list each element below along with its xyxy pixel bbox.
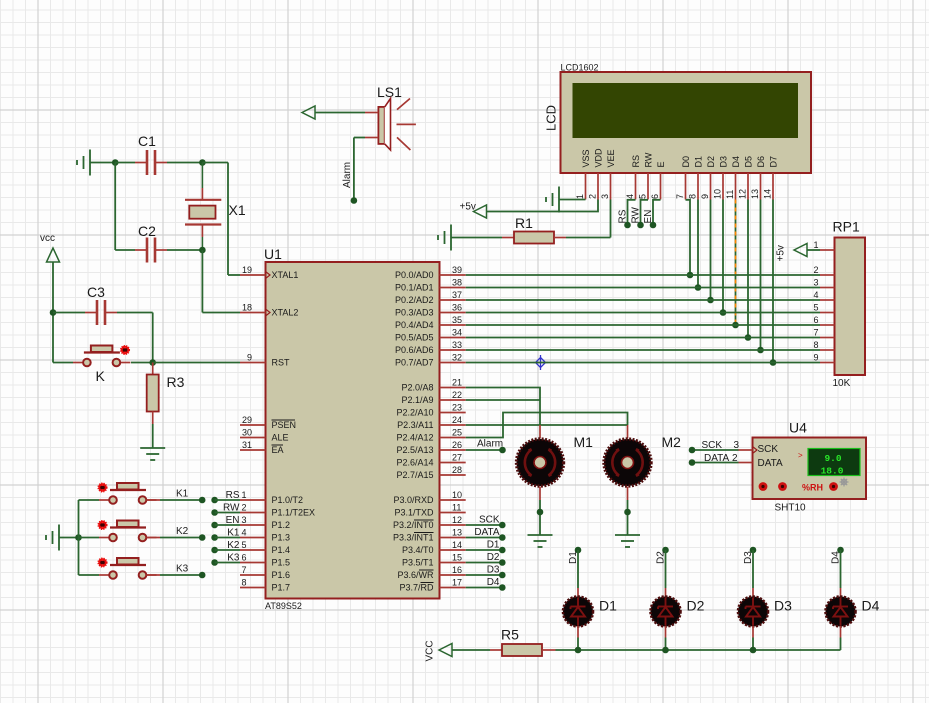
D3 bottom lead bbox=[752, 626, 754, 638]
wire LCD RW bbox=[641, 200, 649, 225]
svg-text:EA: EA bbox=[272, 445, 284, 455]
K2 right lead bbox=[147, 537, 161, 539]
svg-text:12: 12 bbox=[738, 189, 748, 199]
node net RW (LCD) bbox=[637, 222, 644, 229]
svg-text:24: 24 bbox=[452, 415, 462, 425]
svg-text:P1.7: P1.7 bbox=[272, 583, 291, 593]
node net EN (LCD) bbox=[650, 222, 657, 229]
svg-text:P2.5/A13: P2.5/A13 bbox=[396, 445, 433, 455]
node RST bbox=[149, 359, 156, 366]
svg-text:19: 19 bbox=[242, 265, 252, 275]
svg-text:33: 33 bbox=[452, 340, 462, 350]
LCD pin stubs bbox=[586, 173, 774, 200]
ground below R3 bbox=[140, 448, 165, 460]
wire net SCK (U1) bbox=[466, 524, 503, 526]
svg-text:6: 6 bbox=[242, 553, 247, 563]
svg-text:7: 7 bbox=[813, 328, 818, 338]
K1 right lead bbox=[147, 499, 161, 501]
wire net EN to U1 bbox=[215, 524, 240, 526]
ground below LCD pin1 bbox=[546, 187, 559, 213]
wire gnd to C1 node bbox=[90, 162, 115, 164]
svg-text:EN: EN bbox=[226, 515, 240, 526]
svg-text:13: 13 bbox=[452, 528, 462, 538]
svg-text:29: 29 bbox=[242, 415, 252, 425]
svg-text:P0.1/AD1: P0.1/AD1 bbox=[395, 283, 434, 293]
svg-text:P3.2/INT0: P3.2/INT0 bbox=[393, 520, 434, 530]
power VCC (reset circuit) bbox=[47, 248, 60, 262]
svg-text:D2: D2 bbox=[706, 156, 716, 168]
wire to pin18 bbox=[202, 312, 240, 314]
R1 right lead bbox=[554, 237, 566, 239]
svg-text:8: 8 bbox=[813, 340, 818, 350]
svg-text:2: 2 bbox=[242, 503, 247, 513]
wire VSS to ground bbox=[559, 199, 586, 201]
wire to pin19 bbox=[228, 274, 240, 276]
node D1 junction bbox=[695, 284, 702, 291]
svg-text:D0: D0 bbox=[681, 156, 691, 168]
node net K3 at P1 bbox=[211, 559, 218, 566]
node rail D2 bbox=[662, 647, 669, 654]
node M2 gnd wire bbox=[624, 509, 631, 516]
svg-text:D5: D5 bbox=[744, 156, 754, 168]
svg-text:18: 18 bbox=[242, 303, 252, 313]
svg-text:SCK: SCK bbox=[758, 444, 779, 455]
wire LCD D0 bbox=[686, 200, 691, 275]
svg-text:ALE: ALE bbox=[272, 433, 289, 443]
wire DATA bbox=[692, 462, 739, 464]
R1 left lead bbox=[502, 237, 514, 239]
wire net D2 (U1) bbox=[466, 562, 503, 564]
power terminal at LS1 bbox=[302, 106, 315, 119]
svg-text:P2.7/A15: P2.7/A15 bbox=[396, 470, 433, 480]
svg-text:30: 30 bbox=[242, 428, 252, 438]
svg-text:R5: R5 bbox=[501, 627, 519, 643]
svg-text:R3: R3 bbox=[167, 374, 185, 390]
svg-text:5: 5 bbox=[813, 303, 818, 313]
svg-text:5: 5 bbox=[242, 540, 247, 550]
svg-text:39: 39 bbox=[452, 265, 462, 275]
svg-text:VSS: VSS bbox=[581, 149, 591, 167]
wire net K2 to U1 bbox=[215, 549, 240, 551]
svg-text:LS1: LS1 bbox=[377, 84, 402, 100]
svg-text:11: 11 bbox=[452, 503, 461, 513]
svg-text:P0.2/AD2: P0.2/AD2 bbox=[395, 295, 434, 305]
K3 right lead bbox=[147, 574, 161, 576]
wire C2 left bbox=[115, 249, 135, 251]
svg-text:P2.3/A11: P2.3/A11 bbox=[397, 420, 433, 430]
R5 left lead bbox=[490, 649, 502, 651]
svg-text:AT89S52: AT89S52 bbox=[265, 601, 302, 611]
svg-text:K2: K2 bbox=[227, 540, 240, 551]
svg-text:P2.1/A9: P2.1/A9 bbox=[401, 395, 433, 405]
svg-text:DATA: DATA bbox=[758, 458, 784, 469]
wire VCC to K bbox=[53, 362, 73, 364]
svg-text:7: 7 bbox=[675, 194, 685, 199]
node net DATA (U4) bbox=[689, 459, 696, 466]
R3 bottom lead bbox=[152, 412, 154, 425]
wire LCD RS bbox=[628, 200, 636, 225]
svg-text:9: 9 bbox=[813, 353, 818, 363]
svg-text:36: 36 bbox=[452, 303, 462, 313]
wire P0.3 to RP1 bbox=[466, 312, 820, 314]
svg-text:E: E bbox=[656, 161, 666, 167]
wire K1 to net label bbox=[160, 499, 202, 501]
svg-text:VDD: VDD bbox=[594, 148, 604, 168]
svg-text:D7: D7 bbox=[769, 156, 779, 168]
svg-text:2: 2 bbox=[588, 194, 598, 199]
svg-text:18.0: 18.0 bbox=[821, 466, 844, 477]
svg-text:8: 8 bbox=[242, 578, 247, 588]
svg-text:SCK: SCK bbox=[479, 515, 500, 526]
svg-text:R1: R1 bbox=[515, 215, 533, 231]
svg-text:9: 9 bbox=[700, 194, 710, 199]
svg-text:U4: U4 bbox=[789, 420, 807, 436]
node net K1 bbox=[199, 497, 206, 504]
svg-text:D3: D3 bbox=[719, 156, 729, 168]
svg-text:3: 3 bbox=[734, 440, 740, 451]
svg-text:DATA: DATA bbox=[474, 527, 500, 538]
wire VCC to R5 bbox=[452, 649, 490, 651]
svg-text:K1: K1 bbox=[176, 489, 189, 500]
svg-text:SHT10: SHT10 bbox=[775, 503, 807, 514]
U4 SCK stub bbox=[739, 449, 753, 451]
svg-text:C2: C2 bbox=[138, 223, 156, 239]
node net SCK (U1) bbox=[499, 522, 506, 529]
push button K bbox=[73, 346, 130, 367]
svg-text:K3: K3 bbox=[227, 553, 240, 564]
svg-text:17: 17 bbox=[452, 578, 462, 588]
svg-text:15: 15 bbox=[452, 553, 462, 563]
svg-text:P0.4/AD4: P0.4/AD4 bbox=[395, 320, 434, 330]
node net K1 at P1 bbox=[211, 534, 218, 541]
wire D3 to rail bbox=[752, 638, 754, 651]
wire P0.5 to RP1 bbox=[466, 337, 820, 339]
wire K3 to net label bbox=[160, 574, 202, 576]
node buttons common bbox=[75, 534, 82, 541]
wire M1 to ground bbox=[539, 500, 541, 535]
wire LCD D1 bbox=[697, 200, 699, 288]
wire RST to pin9 bbox=[153, 362, 240, 364]
svg-text:%RH: %RH bbox=[802, 483, 823, 493]
wire to K1 left bbox=[79, 499, 100, 501]
svg-text:SCK: SCK bbox=[702, 440, 723, 451]
wire C2 right bbox=[167, 249, 202, 251]
M1 bottom lead bbox=[539, 487, 541, 501]
wire net K1 to U1 bbox=[215, 537, 240, 539]
node net RS (LCD) bbox=[624, 222, 631, 229]
svg-text:P0.6/AD6: P0.6/AD6 bbox=[395, 345, 434, 355]
wire VEE vertical bbox=[610, 200, 612, 238]
power +5V (RP1) bbox=[794, 244, 807, 257]
wire LCD D2 bbox=[710, 200, 712, 301]
wire net RS to U1 bbox=[215, 499, 240, 501]
ground left of C1 bbox=[77, 150, 90, 176]
svg-text:P2.2/A10: P2.2/A10 bbox=[396, 408, 433, 418]
node net D4 (U1) bbox=[499, 584, 506, 591]
wire to K3 left bbox=[79, 574, 100, 576]
wire +5V to RP1 pin1 bbox=[807, 249, 820, 251]
svg-text:P3.3/INT1: P3.3/INT1 bbox=[393, 533, 434, 543]
wire D4 vertical bbox=[840, 550, 842, 588]
push button K3 bbox=[98, 558, 156, 579]
svg-text:K3: K3 bbox=[176, 564, 189, 575]
node net D2 (U1) bbox=[499, 559, 506, 566]
svg-text:26: 26 bbox=[452, 440, 462, 450]
node net K3 bbox=[199, 572, 206, 579]
svg-text:22: 22 bbox=[452, 390, 462, 400]
wire P0.2 to RP1 bbox=[466, 299, 820, 301]
microcontroller U1 (AT89S52) bbox=[240, 246, 466, 611]
node C3 tap bbox=[50, 309, 57, 316]
svg-text:3: 3 bbox=[242, 515, 247, 525]
wire LCD EN bbox=[653, 200, 661, 225]
node C1-left junction bbox=[112, 159, 119, 166]
node D3 junction bbox=[720, 309, 727, 316]
svg-text:VCC: VCC bbox=[425, 640, 436, 661]
svg-text:21: 21 bbox=[452, 378, 462, 388]
wire C3 down to RST bbox=[152, 313, 154, 363]
svg-text:4: 4 bbox=[625, 194, 635, 199]
svg-text:25: 25 bbox=[452, 428, 462, 438]
wire P0.7 to RP1 bbox=[466, 362, 820, 364]
svg-text:37: 37 bbox=[452, 290, 462, 300]
wire D4 to rail bbox=[840, 638, 842, 651]
wire P0.0 to RP1 bbox=[466, 274, 820, 276]
svg-text:P0.3/AD3: P0.3/AD3 bbox=[395, 308, 434, 318]
svg-text:9.0: 9.0 bbox=[824, 453, 841, 464]
svg-text:RW: RW bbox=[631, 206, 642, 223]
U1 left pin stubs bbox=[240, 275, 266, 588]
svg-text:D1: D1 bbox=[599, 598, 617, 614]
node M1 gnd wire bbox=[537, 509, 544, 516]
svg-text:RW: RW bbox=[644, 152, 654, 167]
wire net D3 (U1) bbox=[466, 574, 503, 576]
svg-text:14: 14 bbox=[763, 189, 773, 199]
svg-text:32: 32 bbox=[452, 353, 462, 363]
svg-text:+5v: +5v bbox=[776, 245, 787, 261]
wire D3 vertical bbox=[752, 550, 754, 588]
wire R1 to VEE bbox=[566, 237, 611, 239]
svg-text:D1: D1 bbox=[694, 156, 704, 168]
wire P2.5 Alarm bbox=[466, 449, 503, 451]
wire net D4 (U1) bbox=[466, 587, 503, 589]
wire R3 to ground bbox=[152, 424, 154, 448]
svg-text:RW: RW bbox=[223, 503, 240, 514]
D4 top lead bbox=[840, 588, 842, 597]
wire net D1 (U1) bbox=[466, 549, 503, 551]
wire LCD D5 bbox=[747, 200, 749, 338]
wire LS1- bbox=[354, 137, 365, 139]
wire power to LS1+ bbox=[315, 112, 365, 114]
push button K1 bbox=[98, 483, 156, 504]
M2 bottom lead bbox=[627, 487, 629, 501]
wire K to RST node bbox=[131, 362, 153, 364]
svg-text:3: 3 bbox=[813, 278, 818, 288]
node net K2 bbox=[199, 534, 206, 541]
svg-text:M1: M1 bbox=[574, 434, 594, 450]
D3 top lead bbox=[752, 588, 754, 597]
svg-text:vcc: vcc bbox=[40, 233, 55, 244]
node D7 junction bbox=[770, 359, 777, 366]
svg-text:EN: EN bbox=[643, 210, 654, 224]
wire buttons common vertical bbox=[78, 500, 80, 575]
svg-text:D2: D2 bbox=[487, 552, 500, 563]
U1 right pin stubs bbox=[440, 275, 466, 588]
wire net DATA (U1) bbox=[466, 537, 503, 539]
wire LCD D6 bbox=[760, 200, 762, 351]
D1 bottom lead bbox=[577, 626, 579, 638]
wire P2.1 to M1 bbox=[466, 399, 540, 401]
svg-text:VEE: VEE bbox=[606, 149, 616, 167]
node net K2 at P1 bbox=[211, 547, 218, 554]
svg-text:D4: D4 bbox=[487, 577, 500, 588]
node net D1 (top) bbox=[575, 547, 582, 554]
svg-text:1: 1 bbox=[575, 194, 585, 199]
node D6 junction bbox=[757, 347, 764, 354]
wire P2.3 to M2 bbox=[466, 424, 628, 426]
motor M2 bbox=[604, 439, 651, 486]
M2 top lead bbox=[627, 425, 629, 439]
svg-text:6: 6 bbox=[813, 315, 818, 325]
wire VCC down bbox=[52, 262, 54, 363]
svg-text:2: 2 bbox=[813, 265, 818, 275]
node net D2 (top) bbox=[662, 547, 669, 554]
node net SCK (U4) bbox=[689, 447, 696, 454]
svg-text:P1.3: P1.3 bbox=[272, 533, 291, 543]
node net D4 (top) bbox=[837, 547, 844, 554]
node XTAL1 net bbox=[199, 159, 206, 166]
motor M1 bbox=[517, 439, 564, 486]
LED D2 bbox=[651, 597, 681, 627]
svg-text:P3.4/T0: P3.4/T0 bbox=[402, 545, 434, 555]
wire to K2 left bbox=[79, 537, 100, 539]
svg-text:RP1: RP1 bbox=[833, 219, 860, 235]
svg-text:10: 10 bbox=[713, 189, 723, 199]
node net D3 (U1) bbox=[499, 572, 506, 579]
svg-text:31: 31 bbox=[242, 440, 252, 450]
svg-text:1: 1 bbox=[813, 240, 818, 250]
node Alarm (speaker) bbox=[351, 197, 358, 204]
svg-text:K2: K2 bbox=[176, 526, 189, 537]
svg-text:3: 3 bbox=[600, 194, 610, 199]
wire C1 left bbox=[115, 162, 135, 164]
svg-text:C3: C3 bbox=[87, 284, 105, 300]
svg-text:Alarm: Alarm bbox=[342, 162, 353, 188]
node Alarm (P2.5) bbox=[499, 447, 506, 454]
svg-text:RST: RST bbox=[272, 358, 291, 368]
wire SCK bbox=[692, 449, 739, 451]
R3 top lead bbox=[152, 363, 154, 375]
wire C1-left down to C2 bbox=[114, 163, 116, 251]
svg-text:11: 11 bbox=[725, 190, 735, 199]
LED D4 bbox=[826, 597, 856, 627]
node net RW at P1 bbox=[211, 509, 218, 516]
wire down to XTAL2 row bbox=[201, 250, 203, 313]
node marker (blue diamond) on P0.7 bbox=[533, 355, 548, 370]
wire down to XTAL1 row bbox=[227, 163, 229, 276]
svg-text:34: 34 bbox=[452, 328, 462, 338]
wire P2.4 to M2 bbox=[466, 413, 628, 438]
ground left of R1 bbox=[438, 225, 451, 251]
R5 right lead bbox=[542, 649, 556, 651]
svg-text:4: 4 bbox=[813, 290, 818, 300]
wire C3 right bbox=[117, 312, 153, 314]
svg-text:P3.1/TXD: P3.1/TXD bbox=[394, 508, 434, 518]
svg-text:P1.5: P1.5 bbox=[272, 558, 291, 568]
svg-text:D1: D1 bbox=[487, 540, 500, 551]
wire C3 left bbox=[53, 312, 85, 314]
node net RS at P1 bbox=[211, 497, 218, 504]
wire LED rail bbox=[556, 649, 841, 651]
svg-text:RS: RS bbox=[226, 490, 240, 501]
svg-text:P2.0/A8: P2.0/A8 bbox=[401, 383, 433, 393]
U4 DATA stub bbox=[739, 462, 753, 464]
svg-text:P0.0/AD0: P0.0/AD0 bbox=[395, 270, 434, 280]
svg-text:U1: U1 bbox=[264, 246, 282, 262]
wire +5V to VDD bbox=[487, 200, 598, 212]
wire D1 to rail bbox=[577, 638, 579, 651]
wire D1 vertical bbox=[577, 550, 579, 588]
wire M2 to ground bbox=[627, 500, 629, 535]
svg-text:M2: M2 bbox=[662, 434, 682, 450]
power +5V (LCD VDD) bbox=[474, 205, 487, 218]
wire gnd to R1 bbox=[451, 237, 502, 239]
wire gnd to buttons bbox=[59, 537, 79, 539]
svg-text:RS: RS bbox=[618, 209, 629, 223]
svg-text:27: 27 bbox=[452, 453, 462, 463]
svg-text:13: 13 bbox=[750, 189, 760, 199]
node net EN at P1 bbox=[211, 522, 218, 529]
svg-text:K: K bbox=[96, 368, 106, 384]
svg-text:D3: D3 bbox=[774, 598, 792, 614]
svg-text:DATA: DATA bbox=[704, 453, 730, 464]
ground below M2 bbox=[615, 535, 640, 547]
ground left of K2 bbox=[46, 525, 59, 551]
svg-text:38: 38 bbox=[452, 278, 462, 288]
ground below M1 bbox=[528, 535, 553, 547]
svg-text:5: 5 bbox=[638, 194, 648, 199]
D1 top lead bbox=[577, 588, 579, 597]
svg-text:7: 7 bbox=[242, 565, 247, 575]
svg-text:10K: 10K bbox=[833, 378, 851, 389]
svg-text:D2: D2 bbox=[687, 598, 705, 614]
wire net RW to U1 bbox=[215, 512, 240, 514]
svg-text:XTAL1: XTAL1 bbox=[272, 270, 299, 280]
svg-text:16: 16 bbox=[452, 565, 462, 575]
svg-text:Alarm: Alarm bbox=[477, 439, 503, 450]
svg-text:P1.1/T2EX: P1.1/T2EX bbox=[272, 508, 316, 518]
svg-text:14: 14 bbox=[452, 540, 462, 550]
svg-text:XTAL2: XTAL2 bbox=[272, 308, 299, 318]
wire net K3 to U1 bbox=[215, 562, 240, 564]
wire P2.0 to M1 bbox=[466, 388, 540, 426]
svg-text:P2.4/A12: P2.4/A12 bbox=[396, 433, 433, 443]
svg-text:P1.2: P1.2 bbox=[272, 520, 291, 530]
svg-text:X1: X1 bbox=[229, 202, 246, 218]
node net DATA (U1) bbox=[499, 534, 506, 541]
node rail D3 bbox=[750, 647, 757, 654]
svg-text:6: 6 bbox=[650, 194, 660, 199]
svg-text:P2.6/A14: P2.6/A14 bbox=[396, 458, 433, 468]
svg-text:>: > bbox=[798, 451, 803, 460]
node net D3 (top) bbox=[750, 547, 757, 554]
D2 top lead bbox=[665, 588, 667, 597]
M1 top lead bbox=[539, 425, 541, 439]
wire C1 right bbox=[167, 162, 202, 164]
D4 bottom lead bbox=[840, 626, 842, 638]
svg-text:4: 4 bbox=[242, 528, 247, 538]
RP1 pin stubs bbox=[820, 250, 835, 363]
